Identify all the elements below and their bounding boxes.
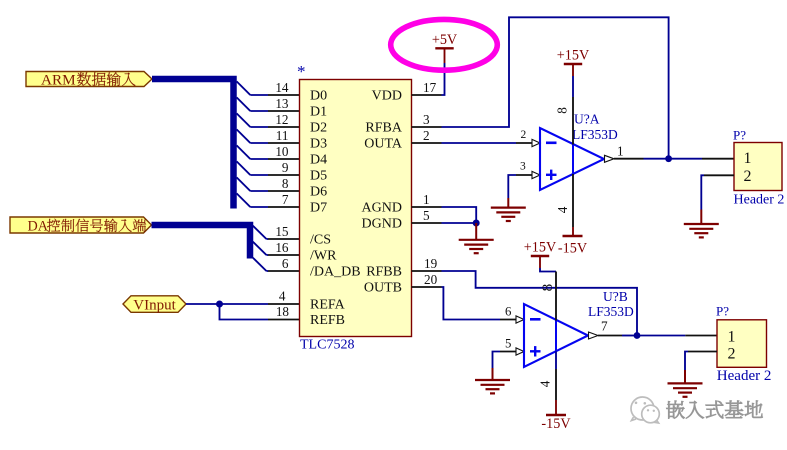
ground (op-amp B + input) xyxy=(475,368,510,393)
junction AGND/DGND node xyxy=(473,220,480,227)
IC U? TLC7528 body xyxy=(300,80,412,337)
pin 7 output wire of U?B xyxy=(589,319,638,340)
svg-text:13: 13 xyxy=(275,96,289,111)
pin 19 (RFBB) wire + feedback to output B node xyxy=(412,256,638,336)
svg-text:1: 1 xyxy=(617,144,624,159)
pin 4 wire (V-) of U?A xyxy=(555,174,573,227)
svg-text:/CS: /CS xyxy=(310,233,331,248)
svg-text:11: 11 xyxy=(276,128,289,143)
svg-text:8: 8 xyxy=(282,176,289,191)
wire bus entry + pin 7 (D7) xyxy=(237,192,300,207)
op-amp U1B (U?B LF353D) xyxy=(524,289,634,367)
power +15V (U?A pin 8) xyxy=(557,48,590,77)
svg-text:Header 2: Header 2 xyxy=(717,368,772,384)
wire bus entry + pin 14 (D0) xyxy=(237,80,300,95)
watermark logo xyxy=(631,397,659,423)
wire op-amp B non-inverting input to ground xyxy=(493,337,525,369)
svg-text:VInput: VInput xyxy=(133,297,176,313)
svg-text:2: 2 xyxy=(521,129,527,141)
pin 8 wire (V+) of U?B xyxy=(539,268,556,321)
wire bus entry + pin 15 xyxy=(253,224,300,239)
svg-text:-15V: -15V xyxy=(558,241,588,257)
junction VInput node xyxy=(216,301,223,308)
svg-text:OUTA: OUTA xyxy=(364,137,403,152)
pin 2 (OUTA) wire to op-amp inverting input xyxy=(412,128,541,146)
svg-text:TLC7528: TLC7528 xyxy=(300,338,354,353)
svg-text:1: 1 xyxy=(744,150,752,167)
svg-text:14: 14 xyxy=(275,80,289,95)
svg-text:Header 2: Header 2 xyxy=(734,192,785,207)
svg-text:3: 3 xyxy=(520,161,526,173)
bus DA control (thick) xyxy=(152,225,251,259)
svg-text:/WR: /WR xyxy=(310,249,337,264)
svg-text:U?A: U?A xyxy=(574,112,600,127)
svg-text:5: 5 xyxy=(423,208,430,223)
svg-text:20: 20 xyxy=(424,272,438,287)
bus ARM data (thick) xyxy=(152,79,234,209)
connector P? Header 2 (A) xyxy=(733,128,784,208)
svg-text:2: 2 xyxy=(728,345,736,362)
pin 17 (VDD) wire xyxy=(412,63,445,95)
highlight ellipse (marker) xyxy=(391,19,498,70)
svg-text:REFA: REFA xyxy=(310,298,346,313)
junction output A node xyxy=(665,155,672,162)
svg-text:+15V: +15V xyxy=(524,240,557,256)
power -15V (U?B pin 4) xyxy=(541,400,571,432)
svg-text:1: 1 xyxy=(423,192,430,207)
wire bus entry + pin 12 (D2) xyxy=(237,112,300,127)
svg-text:AGND: AGND xyxy=(362,201,402,216)
wire output A to header P? pin 1 xyxy=(669,158,734,160)
wire bus entry + pin 10 (D4) xyxy=(237,144,300,159)
svg-text:DGND: DGND xyxy=(362,217,402,232)
svg-text:7: 7 xyxy=(601,319,608,334)
port DA控制信号输入端 xyxy=(10,217,152,235)
svg-text:6: 6 xyxy=(282,256,289,271)
pin 3 (RFBA) wire + feedback loop to output node xyxy=(412,17,669,158)
wire bus entry + pin 13 (D1) xyxy=(237,96,300,111)
svg-text:REFB: REFB xyxy=(310,313,345,328)
svg-text:19: 19 xyxy=(424,256,438,271)
svg-text:18: 18 xyxy=(276,304,290,319)
svg-text:DA: DA xyxy=(28,219,49,235)
svg-text:D5: D5 xyxy=(310,169,327,184)
power +5V xyxy=(432,32,458,63)
power +15V (U?B pin 8) xyxy=(524,240,557,269)
svg-text:17: 17 xyxy=(423,80,437,95)
svg-text:D1: D1 xyxy=(310,105,327,120)
port VInput xyxy=(123,296,186,314)
pin 5 (DGND) wire xyxy=(412,208,477,223)
watermark text 嵌入式基地 xyxy=(666,401,762,419)
svg-text:D4: D4 xyxy=(310,153,327,168)
svg-text:U?B: U?B xyxy=(603,289,628,304)
svg-text:4: 4 xyxy=(538,380,553,387)
svg-text:D0: D0 xyxy=(310,89,327,104)
svg-text:12: 12 xyxy=(275,112,288,127)
wire VInput to REFB pin 18 xyxy=(220,304,300,320)
svg-text:RFBA: RFBA xyxy=(365,121,402,136)
svg-text:VDD: VDD xyxy=(372,89,402,104)
svg-text:-15V: -15V xyxy=(541,416,571,432)
wire header A pin 2 to ground xyxy=(701,175,734,209)
ground (header B pin 2) xyxy=(668,370,703,397)
svg-text:*: * xyxy=(297,62,306,81)
svg-text:3: 3 xyxy=(423,112,430,127)
svg-text:15: 15 xyxy=(275,224,289,239)
svg-text:P?: P? xyxy=(716,304,729,319)
pin 4 wire (V-) of U?B xyxy=(538,351,557,400)
svg-text:2: 2 xyxy=(744,168,752,185)
svg-text:P?: P? xyxy=(733,128,746,143)
wire bus entry + pin 8 (D6) xyxy=(237,176,300,191)
pin 1 output wire of U?A xyxy=(605,144,669,163)
port ARM数据输入 xyxy=(26,72,152,89)
svg-text:+5V: +5V xyxy=(432,32,458,48)
wire VInput to REFA pin 4 xyxy=(186,289,300,305)
svg-text:16: 16 xyxy=(275,240,289,255)
pin 8 wire (V+) of U?A xyxy=(555,76,574,145)
svg-text:/DA_DB: /DA_DB xyxy=(310,265,361,280)
svg-text:4: 4 xyxy=(555,206,570,213)
svg-text:D2: D2 xyxy=(310,121,327,136)
ground (header A pin 2) xyxy=(684,210,719,238)
svg-text:D7: D7 xyxy=(310,201,327,216)
svg-text:RFBB: RFBB xyxy=(366,265,402,280)
wire header B pin 2 to ground xyxy=(685,352,717,371)
wire bus entry + pin 6 xyxy=(253,256,300,271)
power -15V (U?A pin 4) xyxy=(558,227,588,257)
svg-text:LF353D: LF353D xyxy=(572,127,618,142)
svg-text:D3: D3 xyxy=(310,137,327,152)
wire bus entry + pin 11 (D3) xyxy=(237,128,300,143)
svg-text:D6: D6 xyxy=(310,185,327,200)
svg-text:2: 2 xyxy=(423,128,430,143)
wire bus entry + pin 16 xyxy=(253,240,300,255)
wire output B to header P? pin 1 xyxy=(637,335,717,337)
svg-text:9: 9 xyxy=(282,160,289,175)
op-amp U1A (U?A LF353D) xyxy=(540,112,618,191)
svg-text:+15V: +15V xyxy=(557,48,590,64)
svg-text:8: 8 xyxy=(555,107,570,114)
svg-text:6: 6 xyxy=(505,305,512,319)
svg-text:OUTB: OUTB xyxy=(364,281,402,296)
pin 20 (OUTB) wire to op-amp B inverting input xyxy=(412,272,525,323)
svg-text:8: 8 xyxy=(539,283,556,291)
pin 1 (AGND) wire xyxy=(412,192,477,223)
wire op-amp A non-inverting input to ground xyxy=(508,161,540,199)
junction output B node xyxy=(634,332,641,339)
svg-text:5: 5 xyxy=(505,337,511,351)
svg-text:7: 7 xyxy=(282,192,289,207)
svg-text:1: 1 xyxy=(728,328,736,345)
svg-text:LF353D: LF353D xyxy=(588,304,634,319)
connector P? Header 2 (B) xyxy=(716,304,771,384)
svg-text:10: 10 xyxy=(275,144,289,159)
wire bus entry + pin 9 (D5) xyxy=(237,160,300,175)
ground (AGND/DGND) xyxy=(459,223,494,253)
svg-text:4: 4 xyxy=(279,289,286,304)
ground (op-amp A + input) xyxy=(491,198,526,221)
svg-text:ARM: ARM xyxy=(41,72,76,89)
